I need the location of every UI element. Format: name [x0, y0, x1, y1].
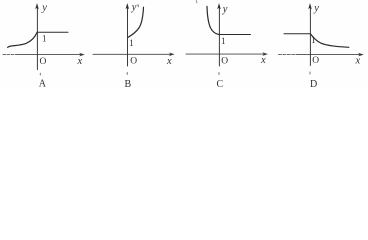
- panel B y-axis lower fleck: [126, 73, 128, 75]
- svg-text:O: O: [40, 57, 47, 67]
- svg-text:C: C: [217, 79, 224, 90]
- svg-text:x: x: [77, 56, 83, 67]
- panel C x-axis: [186, 53, 264, 55]
- panel D x-axis: [279, 54, 297, 56]
- panel A y-axis lower fleck: [39, 73, 41, 75]
- panel D y-axis: [309, 7, 311, 66]
- panel B exponential curve: [128, 7, 143, 37]
- svg-text:x: x: [355, 56, 361, 67]
- svg-text:x: x: [260, 55, 266, 66]
- svg-text:O: O: [130, 56, 137, 66]
- svg-text:O: O: [221, 56, 228, 66]
- svg-text:y: y: [131, 2, 137, 13]
- panel C y-axis arrowhead: [217, 3, 221, 9]
- panel C horizontal ray y=1: [219, 34, 251, 36]
- panel A y-axis arrowhead: [35, 3, 39, 9]
- svg-text:x: x: [166, 56, 172, 67]
- svg-text:D: D: [310, 79, 317, 90]
- panel A curve (rising to y=1): [8, 32, 37, 47]
- panel A x-axis arrowhead: [79, 53, 85, 57]
- panel C y-axis lower fleck: [218, 73, 220, 75]
- svg-text:B: B: [125, 79, 132, 90]
- panel C stray mark top-left: [195, 1, 198, 4]
- svg-text:y: y: [41, 3, 47, 14]
- panel B x-axis arrowhead: [169, 53, 175, 57]
- panel C y-axis: [218, 7, 220, 66]
- panel B y-axis arrowhead: [126, 3, 130, 9]
- panel D horizontal ray y=1: [284, 33, 310, 35]
- svg-text:1: 1: [129, 38, 134, 48]
- svg-text:1: 1: [42, 34, 47, 44]
- svg-text:1: 1: [311, 35, 316, 45]
- panel B y-axis: [127, 7, 129, 66]
- svg-text:O: O: [312, 56, 319, 66]
- svg-text:A: A: [39, 79, 47, 90]
- svg-text:y: y: [313, 3, 319, 14]
- panel A y-axis: [36, 7, 38, 70]
- panel B x-axis: [93, 53, 171, 55]
- panel D x-axis arrowhead: [358, 53, 364, 57]
- panel A x-axis: [3, 54, 18, 56]
- panel C falling curve (to y=1): [207, 6, 219, 34]
- panel C x-axis arrowhead: [262, 52, 268, 56]
- panel B curve top fleck: [137, 5, 139, 7]
- svg-text:1: 1: [221, 36, 226, 46]
- svg-text:y: y: [222, 4, 228, 15]
- panel D y-axis arrowhead: [308, 3, 312, 9]
- panel D decaying curve: [311, 34, 349, 47]
- panel D y-axis lower fleck: [309, 72, 311, 74]
- panel A horizontal ray y=1: [37, 31, 68, 33]
